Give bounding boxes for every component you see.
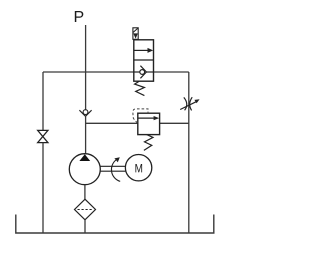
check valve CV1 (ball in seat) on P line [79, 110, 91, 117]
wire: main horizontal pressure line (left segment to valve) [43, 71, 134, 73]
electric motor M1 (circle) [125, 155, 151, 181]
pump P1 (circle) [69, 154, 100, 185]
drive shaft (double line) between pump and motor [100, 166, 126, 171]
relief valve RV1 body [138, 113, 160, 134]
shutoff valve V1 (bowtie) [38, 130, 48, 142]
filter F1 (diamond with dashed element) [75, 199, 96, 220]
wire: filter down to tank [84, 220, 86, 233]
directional valve DV1 top position flow arrow [134, 48, 153, 53]
solenoid plunger arrow (filled down triangle) [133, 33, 138, 38]
wire: P supply vertical line down to check valve [85, 25, 87, 110]
throttle valve FC1 (adjustable restrictor) on right rail [180, 97, 199, 110]
wire: left rail down to shutoff valve [42, 72, 44, 130]
node P label [75, 11, 84, 22]
tank / reservoir (open-top rectangle) [16, 215, 214, 234]
motor label M [135, 164, 142, 172]
rotation arc arrowhead [114, 157, 119, 162]
wire: vertical line from check valve down to pump inlet [85, 116, 87, 154]
directional valve DV1 bottom position check (ball in seat) [140, 66, 147, 79]
relief valve RV1 pilot line (dashed) [133, 109, 148, 123]
directional valve DV1 bottom position flow line through check [134, 71, 154, 73]
rotation direction arc on shaft [111, 160, 120, 181]
wire: relief valve outlet to right rail [160, 122, 189, 124]
directional valve DV1 body (2/2, two positions) [134, 40, 154, 81]
wire: main horizontal pressure line (right segment from valve) [154, 71, 189, 73]
pump P1 outlet triangle (filled, pointing up) [79, 154, 90, 161]
wire: pump inlet down to filter [84, 185, 86, 200]
directional valve DV1 position divider [134, 59, 154, 61]
relief valve RV1 flow arrow [138, 116, 159, 120]
solenoid actuator of DV1 [133, 28, 138, 40]
wire: left rail from shutoff valve down to tank [42, 143, 44, 233]
wire: relief branch from P line to relief valve [86, 122, 138, 124]
wire: right rail from main line down through throttle to tank [188, 72, 190, 233]
relief valve RV1 spring [144, 135, 153, 151]
directional valve DV1 return spring [135, 81, 145, 95]
